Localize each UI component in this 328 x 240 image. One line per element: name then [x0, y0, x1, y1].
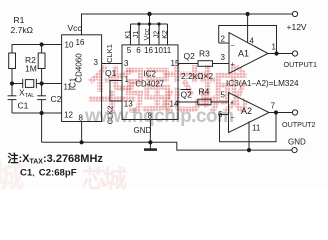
- node crystal right: [40, 81, 44, 85]
- svg-text:IC2: IC2: [143, 70, 156, 79]
- svg-text:6: 6: [136, 46, 141, 55]
- node A1 output feedback: [274, 51, 278, 55]
- wire A2 output: [269, 112, 293, 114]
- svg-text:12: 12: [64, 111, 73, 120]
- svg-text:GND: GND: [288, 138, 306, 147]
- wire R2: [41, 45, 43, 84]
- svg-text:1M: 1M: [25, 64, 37, 74]
- svg-text:10: 10: [65, 41, 74, 50]
- svg-text:J1: J1: [133, 31, 140, 39]
- svg-text:C1、C2:68pF: C1、C2:68pF: [20, 168, 77, 179]
- svg-text:R3: R3: [199, 49, 210, 59]
- node wireC-C2: [40, 111, 44, 115]
- svg-text:−: −: [231, 43, 235, 50]
- svg-text:6: 6: [218, 110, 223, 119]
- node rail pin8 IC2: [148, 140, 152, 144]
- svg-text:Vcc: Vcc: [144, 28, 151, 40]
- wire A pin10: [12, 45, 62, 54]
- node bus J1: [137, 22, 140, 25]
- svg-text:8: 8: [79, 114, 84, 123]
- svg-text:11: 11: [252, 124, 261, 133]
- wire Q1 to CLK2 loop: [110, 81, 122, 102]
- svg-text:2.2kΩ×2: 2.2kΩ×2: [181, 71, 213, 81]
- svg-text:11: 11: [163, 46, 172, 55]
- svg-text:CD4060: CD4060: [74, 53, 83, 83]
- svg-text:14: 14: [170, 100, 179, 109]
- resistor R2: [38, 53, 45, 69]
- svg-text:16: 16: [76, 38, 85, 47]
- resistor R3: [198, 61, 213, 67]
- svg-text:OUTPUT2: OUTPUT2: [282, 120, 316, 129]
- node bus J2: [157, 22, 160, 25]
- wire B pin11: [42, 83, 62, 85]
- svg-text:−: −: [231, 115, 235, 122]
- svg-text:7: 7: [271, 102, 276, 111]
- node rail Vcc IC2: [147, 12, 151, 16]
- wire A1 pin4 riser: [247, 14, 249, 43]
- svg-text:3: 3: [221, 53, 226, 62]
- svg-text:16: 16: [144, 46, 153, 55]
- wire A2 pin6 stub: [220, 114, 229, 116]
- svg-text:2.7kΩ: 2.7kΩ: [11, 25, 33, 35]
- svg-text:OUTPUT1: OUTPUT1: [284, 60, 318, 69]
- op-amp U IC1 box: [62, 35, 102, 122]
- node wireA-R2: [40, 42, 44, 46]
- wire Q2bar net R4: [178, 101, 229, 103]
- svg-text:+: +: [231, 62, 235, 69]
- wire IC1 pin8: [81, 122, 83, 143]
- resistor R1: [9, 53, 16, 69]
- svg-text:Q1: Q1: [105, 68, 117, 78]
- wire A2 pin11: [248, 121, 250, 150]
- svg-text:K2: K2: [162, 30, 169, 39]
- resistor R4: [198, 99, 211, 105]
- svg-text:15: 15: [171, 59, 180, 68]
- svg-text:注:XTAX:3.2768MHz: 注:XTAX:3.2768MHz: [8, 151, 104, 166]
- wire A1 feedback: [219, 26, 277, 54]
- watermark gray url: [85, 106, 234, 128]
- svg-text:A2: A2: [241, 106, 252, 116]
- wire CLK1 net: [102, 63, 122, 65]
- wire A1 output: [268, 53, 293, 55]
- svg-text:+12V: +12V: [287, 22, 307, 32]
- svg-text:K1: K1: [125, 30, 132, 39]
- svg-text:3: 3: [94, 58, 99, 67]
- terminal OUTPUT2: [292, 110, 297, 115]
- watermark faint red corner: [0, 152, 24, 196]
- terminal +12V: [292, 11, 297, 16]
- capacitor C1: [8, 84, 17, 114]
- op-amp A2: [229, 93, 270, 133]
- watermark faint red: [82, 159, 124, 194]
- svg-text:13: 13: [124, 100, 133, 109]
- crystal X1: [12, 79, 42, 88]
- svg-text:1: 1: [125, 75, 130, 84]
- node bus Vcc: [148, 22, 151, 25]
- ground symbol: [144, 142, 157, 149]
- op-amp U IC2 box: [122, 45, 178, 120]
- svg-text:CLK2: CLK2: [105, 106, 114, 125]
- wire Q2 net R3: [178, 63, 229, 65]
- svg-text:IC3(A1–A2)=LM324: IC3(A1–A2)=LM324: [226, 79, 299, 88]
- svg-text:4: 4: [250, 37, 255, 46]
- op-amp A1: [229, 33, 268, 74]
- svg-text:A1: A1: [238, 49, 249, 59]
- svg-text:Q2: Q2: [184, 51, 196, 61]
- svg-text:R1: R1: [14, 15, 25, 25]
- ground rail: [42, 142, 292, 150]
- terminal GND: [292, 148, 297, 153]
- node rail A1 pin4: [246, 12, 250, 16]
- node crystal left: [10, 81, 14, 85]
- wire A2 feedback: [220, 113, 277, 142]
- svg-text:CD4027: CD4027: [135, 80, 164, 89]
- svg-text:+: +: [230, 100, 234, 107]
- svg-text:CLK1: CLK1: [105, 44, 114, 63]
- svg-text:C1: C1: [18, 101, 29, 111]
- wire C pin12: [12, 112, 62, 114]
- wire R1 bottom: [11, 69, 13, 84]
- svg-text:3: 3: [124, 59, 129, 68]
- svg-text:Vcc: Vcc: [68, 23, 83, 33]
- svg-text:5: 5: [127, 46, 132, 55]
- svg-text:Q2: Q2: [181, 90, 193, 100]
- svg-text:J2: J2: [153, 31, 160, 39]
- svg-text:2: 2: [221, 35, 226, 44]
- svg-text:C2: C2: [51, 94, 62, 104]
- wire C2 to ground rail: [41, 113, 43, 142]
- svg-text:GND: GND: [134, 126, 152, 135]
- watermark red characters: [87, 51, 262, 123]
- wire Vcc top rail: [82, 14, 293, 35]
- node A2 output feedback: [274, 110, 278, 114]
- node rail A2 pin11: [247, 148, 251, 152]
- terminal OUTPUT1: [292, 51, 297, 56]
- wire A1 pin2 stub: [219, 42, 229, 44]
- node rail pin8 IC1: [80, 140, 84, 144]
- capacitor C2: [37, 84, 46, 114]
- svg-text:8: 8: [148, 112, 153, 121]
- svg-text:1: 1: [272, 43, 277, 52]
- wire IC2 top bus: [131, 14, 168, 45]
- svg-text:XTAL: XTAL: [19, 88, 34, 100]
- svg-text:R4: R4: [199, 87, 210, 97]
- svg-text:5: 5: [221, 91, 226, 100]
- wire IC2 pin8 gnd: [149, 120, 151, 143]
- label Q2bar overline: [181, 89, 191, 91]
